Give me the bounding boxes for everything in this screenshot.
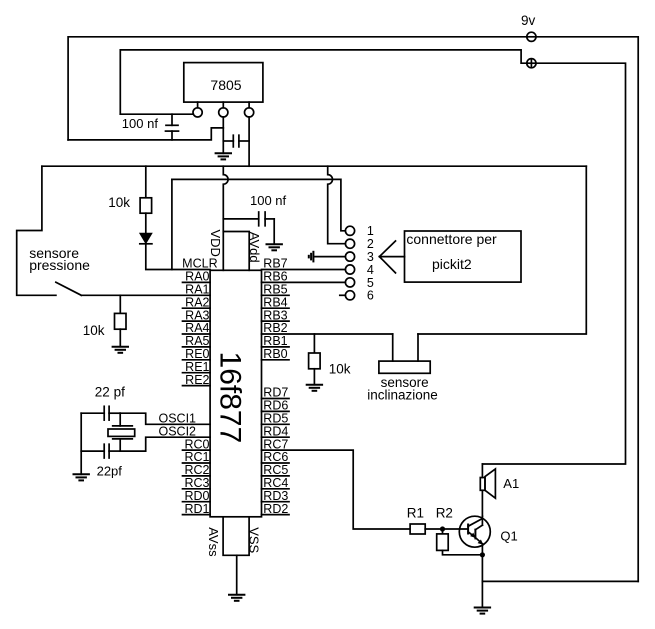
- svg-text:RA5: RA5: [185, 334, 209, 348]
- wire emitter down: [481, 544, 483, 582]
- pin OSCI1: [158, 412, 196, 426]
- pin RE0: [183, 347, 211, 361]
- pin RA1: [185, 283, 209, 297]
- pin RA0: [183, 270, 211, 284]
- svg-text:100 nf: 100 nf: [250, 193, 287, 208]
- svg-text:MCLR: MCLR: [182, 257, 217, 271]
- resistor R1: [407, 506, 425, 534]
- wire VPP horizontal to pickit pin1: [172, 179, 345, 230]
- svg-text:16f877: 16f877: [214, 352, 247, 444]
- wire OSCI2 to crystal net: [120, 437, 210, 451]
- pin OSCI2: [158, 424, 196, 438]
- svg-text:OSCI2: OSCI2: [158, 424, 196, 438]
- pin RD5: [262, 412, 290, 426]
- pin RA3: [183, 308, 211, 322]
- pin RD6: [262, 399, 290, 413]
- wire 7805 input from plus: [120, 113, 193, 115]
- pin RE2: [183, 373, 211, 387]
- pin RB3: [262, 308, 290, 322]
- svg-text:R1: R1: [407, 506, 424, 521]
- svg-text:VDD: VDD: [208, 230, 223, 257]
- svg-text:10k: 10k: [108, 195, 130, 210]
- svg-text:22 pf: 22 pf: [95, 385, 125, 400]
- svg-text:100 nf: 100 nf: [122, 116, 159, 131]
- pin RB6: [263, 270, 287, 284]
- connector pin circle 1: [345, 226, 354, 235]
- svg-text:10k: 10k: [329, 362, 351, 377]
- node junction R2 top: [440, 526, 445, 531]
- capacitor C2 output: [223, 135, 249, 147]
- box connettore per pickit2: [405, 231, 522, 282]
- chip U1 16f877 body: [210, 270, 261, 517]
- wire plus rail left: [120, 50, 527, 114]
- svg-text:2: 2: [367, 237, 374, 251]
- connector pin circle 5: [345, 278, 354, 287]
- pin RE1: [183, 360, 211, 374]
- pin RA2: [183, 295, 211, 309]
- wire +5V top rail: [42, 165, 586, 167]
- wire sensore inclinazione to rail loop: [418, 166, 586, 334]
- svg-text:RB5: RB5: [263, 283, 287, 297]
- svg-text:AVss: AVss: [206, 527, 221, 557]
- svg-text:RA1: RA1: [185, 283, 209, 297]
- pin RB1: [262, 334, 290, 348]
- wire R1 to base: [425, 528, 468, 530]
- pin RC6: [262, 450, 290, 464]
- ground at transistor: [474, 608, 491, 614]
- pin RB2: [263, 321, 287, 335]
- svg-text:RD7: RD7: [263, 386, 288, 400]
- svg-text:pickit2: pickit2: [432, 256, 472, 272]
- wire stub at pin 6: [340, 294, 346, 296]
- ground at C3: [266, 244, 283, 250]
- svg-text:RE1: RE1: [185, 360, 209, 374]
- pin RA4: [183, 321, 211, 335]
- pin RD0: [183, 489, 211, 503]
- pin MCLR: [182, 257, 217, 271]
- wire rail to sensore pressione: [17, 166, 56, 295]
- wire OSCI1 to crystal net: [120, 413, 210, 424]
- svg-text:R2: R2: [436, 506, 453, 521]
- svg-text:RD2: RD2: [263, 502, 288, 516]
- svg-text:RE0: RE0: [185, 347, 209, 361]
- node junction emitter R2: [480, 552, 485, 557]
- wire RB6 to pin 5: [262, 281, 346, 283]
- svg-text:OSCI1: OSCI1: [158, 412, 196, 426]
- pin RD3: [262, 489, 290, 503]
- wire caps common to ground: [80, 413, 82, 474]
- wire RC7 to R1: [262, 450, 411, 529]
- svg-text:AVdd: AVdd: [247, 232, 262, 263]
- svg-text:RD5: RD5: [263, 412, 288, 426]
- pin RD7: [262, 386, 290, 400]
- sensore inclinazione component: [367, 334, 438, 403]
- svg-text:10k: 10k: [83, 323, 105, 338]
- wire minus rail right down right edge: [536, 37, 638, 582]
- svg-text:RB3: RB3: [263, 308, 287, 322]
- switch sensore pressione: [29, 245, 90, 295]
- svg-text:3: 3: [367, 250, 374, 264]
- svg-text:RC7: RC7: [263, 437, 288, 451]
- resistor 10k pull-down RA1: [83, 295, 126, 346]
- pin RD1: [183, 502, 211, 516]
- svg-text:RC0: RC0: [184, 437, 209, 451]
- pin RC0: [183, 437, 211, 451]
- wire RB7 to pin 4: [262, 269, 346, 271]
- wire VPP vertical to MCLR: [171, 179, 173, 269]
- speaker A1: [480, 464, 519, 516]
- wire VSS to ground: [236, 555, 238, 594]
- svg-text:pressione: pressione: [29, 257, 90, 273]
- pin RB4: [262, 295, 290, 309]
- svg-text:6: 6: [367, 289, 374, 303]
- transistor Q1: [459, 516, 517, 547]
- battery plus terminal: [527, 59, 536, 68]
- ground at RB2 resistor: [306, 385, 323, 391]
- svg-text:RE2: RE2: [185, 373, 209, 387]
- connector pin circle 6: [345, 291, 354, 300]
- wire plus rail right down to speaker: [482, 63, 625, 464]
- wire 7805 pin2 stem: [222, 117, 224, 153]
- ground sideways at pin 3: [309, 251, 346, 263]
- svg-text:9v: 9v: [521, 13, 536, 28]
- svg-text:RA4: RA4: [185, 321, 209, 335]
- wire switch to RA1: [81, 294, 210, 296]
- svg-text:RC5: RC5: [263, 463, 288, 477]
- svg-text:RD4: RD4: [263, 424, 288, 438]
- wire ground net bottom of 7805: [68, 128, 223, 140]
- pin RD4: [262, 424, 290, 438]
- wire diode to MCLR: [146, 244, 210, 270]
- svg-text:inclinazione: inclinazione: [367, 388, 438, 403]
- pin RB5: [262, 283, 290, 297]
- pin RD2: [262, 502, 290, 516]
- regulator U 7805: [184, 63, 263, 103]
- connector pin circle 4: [345, 265, 354, 274]
- wire minus rail left: [68, 37, 527, 140]
- svg-text:RB2: RB2: [263, 321, 287, 335]
- svg-text:VSS: VSS: [247, 527, 262, 553]
- pin RC5: [262, 463, 290, 477]
- svg-text:7805: 7805: [210, 77, 241, 93]
- capacitor 22 pf top: [81, 385, 125, 421]
- svg-text:RA2: RA2: [185, 295, 209, 309]
- chip bottom stub AVss/VSS: [223, 517, 249, 556]
- pin RC1: [183, 450, 211, 464]
- crystal X1: [108, 413, 135, 451]
- pin RC3: [183, 476, 211, 490]
- ground under 7805: [215, 153, 232, 159]
- svg-text:Q1: Q1: [500, 529, 517, 544]
- resistor 10k pull-up MCLR: [108, 166, 151, 233]
- svg-text:RB1: RB1: [263, 334, 287, 348]
- svg-text:22pf: 22pf: [97, 464, 123, 479]
- 7805 pin 1 circle: [193, 102, 202, 117]
- pin RB0: [262, 347, 290, 361]
- svg-text:RB0: RB0: [263, 347, 287, 361]
- wire emitter to ground: [481, 581, 483, 607]
- resistor R2: [436, 506, 483, 555]
- diode D1: [140, 233, 152, 244]
- pin RC7: [263, 437, 288, 451]
- svg-text:5: 5: [367, 276, 374, 290]
- svg-text:RD0: RD0: [184, 489, 209, 503]
- connector pin circle 3: [345, 252, 354, 261]
- svg-text:RA3: RA3: [185, 308, 209, 322]
- svg-text:A1: A1: [503, 476, 519, 491]
- arrow from pickit2 box: [379, 241, 404, 273]
- svg-text:RB7: RB7: [263, 257, 287, 271]
- svg-text:4: 4: [367, 263, 374, 277]
- svg-text:RC1: RC1: [184, 450, 209, 464]
- svg-text:RC3: RC3: [184, 476, 209, 490]
- svg-text:RD1: RD1: [184, 502, 209, 516]
- pin RC2: [183, 463, 211, 477]
- svg-text:connettore per: connettore per: [406, 231, 497, 247]
- wire RB2 to sensore inclinazione: [262, 333, 393, 335]
- wire VDD drop with hop over VPP wire: [223, 166, 228, 231]
- capacitor 22pf bottom: [81, 444, 122, 479]
- ground at crystal: [73, 474, 90, 480]
- ground under chip: [228, 595, 245, 601]
- svg-text:RC2: RC2: [184, 463, 209, 477]
- 7805 pin 2 circle: [219, 102, 228, 117]
- svg-text:RD6: RD6: [263, 399, 288, 413]
- 7805 pin 3 circle: [245, 102, 254, 117]
- pin RB7: [263, 257, 287, 271]
- chip top stub VDD/AVdd: [223, 232, 249, 271]
- ground at RA1 resistor: [112, 347, 129, 353]
- svg-text:RC4: RC4: [263, 476, 288, 490]
- svg-text:RD3: RD3: [263, 489, 288, 503]
- svg-text:RA0: RA0: [185, 270, 209, 284]
- svg-text:RC6: RC6: [263, 450, 288, 464]
- capacitor C1 100 nf input: [122, 114, 179, 140]
- wire pickit pin2 drop with hop: [328, 166, 346, 244]
- connector pin circle 2: [345, 239, 354, 248]
- svg-text:RB6: RB6: [263, 270, 287, 284]
- pin RC4: [262, 476, 290, 490]
- battery minus terminal: [527, 32, 536, 41]
- resistor 10k pull-down RB2: [309, 334, 351, 385]
- pin RA5: [183, 334, 211, 348]
- wire emitter to minus rail: [482, 580, 638, 582]
- wire 7805 pin3 to rail: [248, 117, 250, 166]
- svg-text:RB4: RB4: [263, 295, 287, 309]
- capacitor C3 100 nf near chip: [223, 193, 286, 244]
- svg-text:1: 1: [367, 224, 374, 238]
